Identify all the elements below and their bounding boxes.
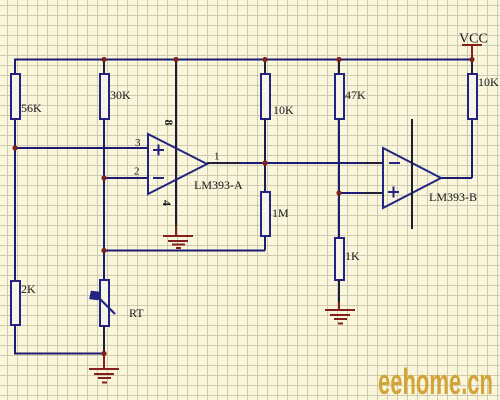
svg-text:10K: 10K xyxy=(478,75,499,89)
thermistor RT body xyxy=(100,280,109,326)
junction dot pin2 node xyxy=(101,175,106,180)
wire op-amp B plus pin segment xyxy=(362,192,383,194)
junction dot plus input node xyxy=(336,190,341,195)
svg-text:eehome.cn: eehome.cn xyxy=(378,361,493,400)
junction dot RT bottom node xyxy=(101,351,106,356)
svg-text:VCC: VCC xyxy=(459,32,488,47)
wire 1K bottom xyxy=(338,280,340,302)
resistor 30K xyxy=(100,74,109,119)
wire pin3 input xyxy=(15,147,148,149)
wire 10K top stub xyxy=(264,60,266,75)
wire 2K bottom xyxy=(14,325,16,354)
svg-text:LM393-A: LM393-A xyxy=(194,178,243,192)
resistor 10K (middle) xyxy=(261,74,270,119)
junction dot top rail 10K xyxy=(262,57,267,62)
svg-text:1M: 1M xyxy=(272,206,289,220)
wire op-amp A output pin segment xyxy=(207,162,240,164)
wire op-amp A output xyxy=(207,162,383,164)
wire 30K top stub xyxy=(103,60,105,75)
wire RT bottom xyxy=(103,326,105,354)
svg-text:4: 4 xyxy=(160,200,174,206)
resistor 56K xyxy=(11,74,20,119)
svg-text:2: 2 xyxy=(134,166,140,178)
svg-text:10K: 10K xyxy=(273,103,294,117)
wire bottom rail xyxy=(14,353,104,355)
junction dot top rail pin8 xyxy=(173,57,178,62)
resistor 1K xyxy=(335,238,344,280)
wire left rail upper xyxy=(14,59,16,75)
thermistor RT arrow xyxy=(90,292,115,315)
svg-text:3: 3 xyxy=(135,137,141,149)
svg-text:1: 1 xyxy=(214,151,220,163)
resistor 47K xyxy=(335,74,344,119)
ground below RT xyxy=(89,369,119,383)
wire top rail xyxy=(15,59,472,61)
op-amp U1B LM393-B xyxy=(383,148,441,208)
wire op-amp B minus pin segment xyxy=(362,162,383,164)
ground below 1K xyxy=(325,310,355,324)
junction dot output node xyxy=(262,160,267,165)
wire left rail lower xyxy=(14,119,16,281)
svg-text:LM393-B: LM393-B xyxy=(429,190,477,204)
wire feedback to RT node xyxy=(104,250,265,252)
wire pin2 input xyxy=(104,177,148,179)
ground below op-amp A pin 4 xyxy=(163,236,193,248)
svg-text:1K: 1K xyxy=(345,249,360,263)
resistor 1M xyxy=(261,192,270,236)
wire op-amp B power line xyxy=(411,119,413,229)
op-amp U1A LM393-A xyxy=(148,134,207,194)
wire 1K ground stub xyxy=(338,302,340,310)
wire RT ground stub xyxy=(103,354,105,370)
wire pin4 ground stub xyxy=(175,226,177,236)
junction dot pin3 node xyxy=(12,145,17,150)
svg-text:2K: 2K xyxy=(21,282,36,296)
wire 1M bottom xyxy=(264,236,266,251)
wire op-amp A power line pin8 xyxy=(175,60,177,227)
wire 1M top stub xyxy=(264,163,266,192)
junction dot top rail VCC xyxy=(469,57,474,62)
svg-text:RT: RT xyxy=(129,306,144,320)
wire plus input B xyxy=(339,192,383,194)
power VCC bar xyxy=(462,44,482,46)
svg-text:56K: 56K xyxy=(21,101,42,115)
wire 10K bottom xyxy=(264,119,266,163)
wire 47K top stub xyxy=(338,60,340,75)
junction dot top rail 47K xyxy=(336,57,341,62)
wire 30K bottom to RT xyxy=(103,119,105,280)
junction dot RT top node xyxy=(101,248,106,253)
wire op-amp B output xyxy=(441,177,472,179)
resistor 10K (right) xyxy=(468,74,477,119)
resistor 2K xyxy=(11,281,20,325)
svg-text:8: 8 xyxy=(162,120,176,126)
power VCC stub xyxy=(471,45,473,60)
svg-text:30K: 30K xyxy=(110,88,131,102)
wire output up to 10K xyxy=(471,119,473,178)
wire 10K right top stub xyxy=(471,60,473,75)
svg-text:47K: 47K xyxy=(345,88,366,102)
junction dot top rail 30K xyxy=(101,57,106,62)
wire 47K bottom xyxy=(338,119,340,238)
